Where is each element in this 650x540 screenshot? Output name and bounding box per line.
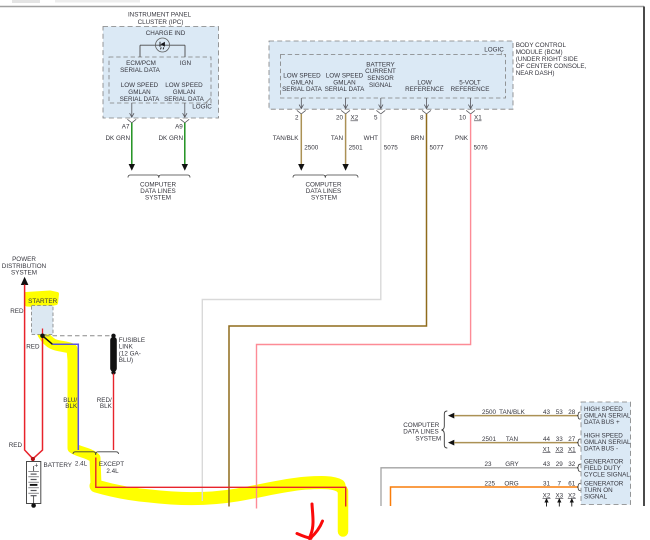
svg-text:28: 28 — [568, 409, 576, 416]
svg-text:REFERENCE: REFERENCE — [451, 86, 490, 93]
svg-text:+: + — [34, 463, 38, 470]
svg-text:DK GRN: DK GRN — [159, 135, 184, 142]
svg-text:5075: 5075 — [384, 145, 399, 152]
svg-text:43: 43 — [543, 461, 551, 468]
svg-text:TAN/BLK: TAN/BLK — [499, 409, 526, 416]
svg-text:BLU): BLU) — [119, 357, 133, 364]
svg-text:2500: 2500 — [304, 145, 319, 152]
svg-text:CHARGE IND: CHARGE IND — [146, 30, 186, 37]
svg-text:20: 20 — [336, 115, 344, 122]
svg-text:BLK: BLK — [100, 403, 113, 410]
svg-text:61: 61 — [568, 480, 576, 487]
svg-text:BLK: BLK — [65, 403, 78, 410]
svg-text:CLUSTER (IPC): CLUSTER (IPC) — [138, 19, 184, 26]
svg-text:A9: A9 — [175, 124, 183, 131]
svg-text:44: 44 — [543, 436, 551, 443]
svg-text:LINK: LINK — [119, 344, 134, 351]
svg-text:TAN: TAN — [506, 436, 519, 443]
svg-text:REFERENCE: REFERENCE — [405, 86, 444, 93]
svg-text:27: 27 — [568, 436, 576, 443]
svg-text:CYCLE SIGNAL: CYCLE SIGNAL — [584, 472, 630, 479]
svg-text:BATTERY: BATTERY — [44, 462, 73, 469]
svg-text:23: 23 — [484, 461, 492, 468]
svg-text:STARTER: STARTER — [28, 298, 58, 305]
svg-text:2500: 2500 — [482, 409, 497, 416]
svg-text:SIGNAL: SIGNAL — [369, 82, 393, 89]
svg-text:NEAR DASH): NEAR DASH) — [516, 70, 555, 77]
svg-text:DK GRN: DK GRN — [106, 135, 131, 142]
svg-text:SYSTEM: SYSTEM — [145, 194, 171, 201]
svg-text:SERIAL DATA: SERIAL DATA — [164, 96, 205, 103]
svg-text:INSTRUMENT PANEL: INSTRUMENT PANEL — [128, 12, 192, 19]
svg-text:TAN: TAN — [331, 135, 344, 142]
svg-text:TAN/BLK: TAN/BLK — [273, 135, 300, 142]
svg-text:IGN: IGN — [180, 60, 192, 67]
svg-text:RED: RED — [26, 343, 40, 350]
svg-text:SIGNAL: SIGNAL — [584, 494, 608, 501]
svg-text:2.4L: 2.4L — [75, 460, 88, 467]
svg-text:SYSTEM: SYSTEM — [11, 270, 37, 277]
svg-text:2501: 2501 — [349, 145, 364, 152]
svg-text:SYSTEM: SYSTEM — [311, 194, 337, 201]
svg-text:5077: 5077 — [430, 145, 445, 152]
svg-text:WHT: WHT — [364, 135, 378, 142]
svg-text:2: 2 — [295, 115, 299, 122]
svg-text:GRY: GRY — [505, 461, 519, 468]
svg-text:SERIAL DATA: SERIAL DATA — [120, 67, 161, 74]
svg-text:ORG: ORG — [504, 480, 518, 487]
svg-text:LOGIC: LOGIC — [192, 104, 212, 111]
svg-text:SERIAL DATA: SERIAL DATA — [282, 86, 323, 93]
svg-text:32: 32 — [568, 461, 576, 468]
svg-text:DATA BUS +: DATA BUS + — [584, 419, 620, 426]
svg-text:10: 10 — [459, 115, 467, 122]
svg-text:53: 53 — [556, 409, 564, 416]
svg-text:LOGIC: LOGIC — [484, 46, 504, 53]
svg-text:PNK: PNK — [455, 135, 469, 142]
svg-text:SERIAL DATA: SERIAL DATA — [325, 86, 366, 93]
svg-text:33: 33 — [556, 436, 564, 443]
svg-text:5076: 5076 — [474, 145, 489, 152]
svg-text:2.4L: 2.4L — [106, 468, 119, 475]
svg-text:ECM/PCM: ECM/PCM — [126, 60, 156, 67]
svg-text:RED: RED — [10, 308, 24, 315]
svg-text:A7: A7 — [122, 124, 130, 131]
svg-text:EXCEPT: EXCEPT — [99, 461, 124, 468]
svg-text:225: 225 — [484, 480, 495, 487]
svg-text:DATA BUS -: DATA BUS - — [584, 446, 618, 453]
svg-text:43: 43 — [543, 409, 551, 416]
svg-text:31: 31 — [543, 480, 551, 487]
svg-text:7: 7 — [558, 480, 562, 487]
svg-text:SYSTEM: SYSTEM — [415, 435, 441, 442]
svg-text:29: 29 — [556, 461, 564, 468]
svg-text:2501: 2501 — [482, 436, 497, 443]
svg-text:SERIAL DATA: SERIAL DATA — [120, 96, 161, 103]
svg-text:5: 5 — [374, 115, 378, 122]
svg-text:RED: RED — [9, 442, 23, 449]
svg-text:8: 8 — [420, 115, 424, 122]
svg-text:BRN: BRN — [411, 135, 425, 142]
